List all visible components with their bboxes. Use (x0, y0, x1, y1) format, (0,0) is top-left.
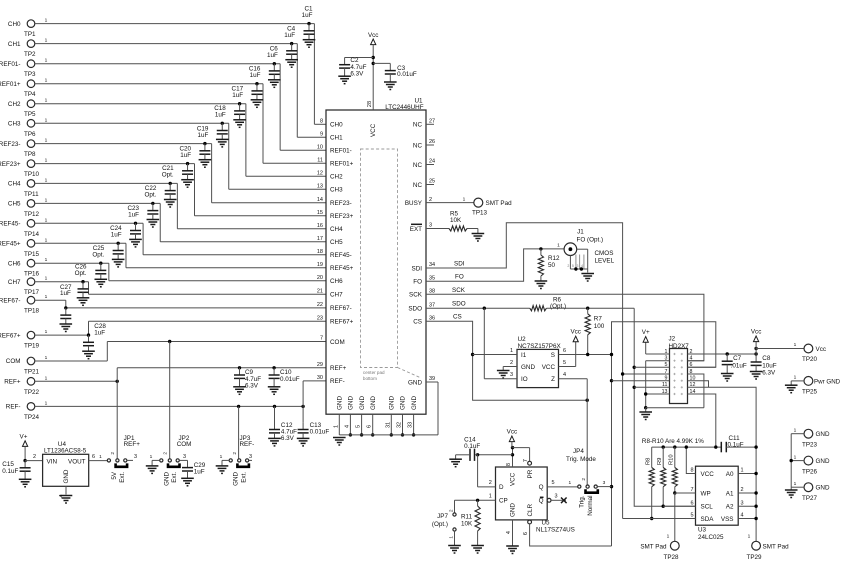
svg-text:3: 3 (741, 500, 744, 506)
svg-text:1uF: 1uF (284, 32, 295, 39)
svg-text:SDA: SDA (701, 516, 715, 523)
svg-text:J1: J1 (577, 229, 584, 236)
svg-text:REF01+: REF01+ (330, 161, 354, 168)
svg-text:Trig. Mode: Trig. Mode (566, 456, 596, 463)
svg-text:1: 1 (667, 534, 670, 540)
svg-text:1: 1 (741, 468, 744, 474)
svg-text:JP7: JP7 (437, 513, 448, 520)
svg-text:TP16: TP16 (24, 271, 40, 278)
svg-text:6: 6 (523, 532, 529, 535)
svg-text:TP19: TP19 (24, 343, 40, 350)
svg-text:REF45-: REF45- (0, 221, 21, 228)
svg-text:2: 2 (33, 454, 36, 460)
svg-text:GND: GND (233, 471, 240, 485)
svg-text:15: 15 (317, 210, 323, 216)
svg-text:GND: GND (816, 458, 830, 465)
svg-text:7: 7 (523, 459, 529, 462)
svg-text:TP27: TP27 (802, 495, 818, 502)
svg-text:.01uF: .01uF (731, 362, 747, 369)
svg-text:16: 16 (317, 223, 323, 229)
svg-text:R11: R11 (461, 513, 473, 520)
svg-text:1: 1 (794, 342, 797, 348)
svg-text:1: 1 (794, 454, 797, 460)
svg-text:I1: I1 (521, 352, 527, 359)
svg-text:3: 3 (603, 480, 606, 486)
svg-text:Vcc: Vcc (816, 346, 827, 353)
svg-text:CP: CP (499, 498, 508, 505)
svg-text:Trig.: Trig. (579, 495, 586, 508)
svg-text:3: 3 (555, 494, 558, 500)
svg-text:CH5: CH5 (8, 201, 21, 208)
svg-text:NC: NC (413, 122, 423, 129)
svg-text:10uF: 10uF (762, 362, 777, 369)
svg-text:1uF: 1uF (60, 290, 71, 297)
svg-text:VCC: VCC (701, 471, 715, 478)
svg-text:Q: Q (539, 498, 544, 505)
svg-text:REF01-: REF01- (0, 61, 21, 68)
svg-text:4: 4 (506, 531, 512, 534)
svg-text:1: 1 (150, 454, 153, 460)
svg-text:3: 3 (183, 454, 186, 460)
svg-text:REF-: REF- (240, 441, 255, 448)
svg-text:TP3: TP3 (24, 71, 36, 78)
svg-text:4: 4 (59, 495, 65, 498)
svg-text:TP15: TP15 (24, 251, 40, 258)
svg-text:0.1uF: 0.1uF (2, 468, 18, 475)
svg-text:R12: R12 (548, 255, 560, 262)
svg-text:1uF: 1uF (198, 132, 209, 139)
svg-text:Q: Q (539, 484, 544, 491)
svg-text:2: 2 (741, 487, 744, 493)
svg-text:Z: Z (551, 376, 555, 383)
svg-text:CH3: CH3 (8, 121, 21, 128)
svg-text:1uF: 1uF (194, 469, 205, 476)
svg-text:GND: GND (370, 396, 377, 410)
svg-text:SDO: SDO (408, 306, 422, 313)
svg-text:100: 100 (594, 323, 605, 330)
svg-text:1: 1 (794, 481, 797, 487)
svg-text:13: 13 (317, 184, 323, 190)
svg-text:REF23+: REF23+ (0, 161, 21, 168)
svg-text:7: 7 (320, 336, 323, 342)
svg-text:COM: COM (177, 441, 192, 448)
svg-text:11: 11 (317, 158, 323, 164)
svg-text:SMT Pad: SMT Pad (640, 544, 667, 551)
svg-text:6: 6 (690, 500, 693, 506)
svg-text:D: D (499, 484, 504, 491)
svg-text:1uF: 1uF (94, 330, 105, 337)
svg-text:1: 1 (45, 400, 48, 406)
svg-text:14: 14 (317, 197, 323, 203)
svg-text:GND: GND (337, 396, 344, 410)
svg-text:VSS: VSS (721, 516, 734, 523)
svg-text:1: 1 (45, 78, 48, 84)
svg-text:GND: GND (359, 396, 366, 410)
svg-text:GND: GND (400, 396, 407, 410)
svg-text:3: 3 (249, 454, 252, 460)
svg-text:NC7SZ157P6X: NC7SZ157P6X (518, 343, 562, 350)
svg-text:10K: 10K (461, 521, 473, 528)
svg-text:TP23: TP23 (802, 441, 818, 448)
svg-text:26: 26 (429, 139, 435, 145)
svg-text:6.3V: 6.3V (350, 71, 364, 78)
svg-text:5: 5 (572, 264, 574, 268)
svg-text:22: 22 (317, 302, 323, 308)
svg-text:CLR: CLR (527, 503, 534, 516)
svg-text:TP18: TP18 (24, 308, 40, 315)
svg-text:LTC2446UHF: LTC2446UHF (385, 104, 424, 111)
svg-text:2: 2 (429, 197, 432, 203)
svg-text:VCC: VCC (542, 364, 556, 371)
svg-text:1: 1 (45, 98, 48, 104)
svg-text:5V: 5V (111, 471, 118, 480)
svg-text:BUSY: BUSY (405, 200, 423, 207)
svg-text:4: 4 (344, 425, 350, 428)
svg-text:REF-: REF- (330, 378, 345, 385)
svg-text:V+: V+ (642, 329, 650, 336)
svg-text:1uF: 1uF (250, 72, 261, 79)
svg-text:CH0: CH0 (330, 122, 343, 129)
svg-text:FO (Opt.): FO (Opt.) (577, 236, 604, 243)
svg-text:R7: R7 (594, 316, 603, 323)
svg-text:C8: C8 (762, 355, 771, 362)
svg-text:SCL: SCL (701, 504, 714, 511)
svg-text:3: 3 (510, 372, 513, 378)
svg-text:COM: COM (6, 358, 21, 365)
svg-text:0.01uF: 0.01uF (397, 71, 417, 78)
svg-text:29: 29 (317, 362, 323, 368)
svg-text:34: 34 (429, 262, 435, 268)
svg-text:REF67+: REF67+ (330, 319, 354, 326)
svg-text:Pwr GND: Pwr GND (814, 378, 841, 385)
svg-text:7: 7 (690, 487, 693, 493)
svg-text:10K: 10K (450, 217, 462, 224)
svg-text:1: 1 (45, 158, 48, 164)
svg-text:2: 2 (489, 480, 492, 486)
svg-text:1uF: 1uF (111, 232, 122, 239)
svg-text:CS: CS (453, 314, 462, 321)
svg-text:TP21: TP21 (24, 369, 40, 376)
svg-text:CH1: CH1 (330, 135, 343, 142)
svg-text:GND: GND (348, 396, 355, 410)
svg-text:38: 38 (429, 289, 435, 295)
svg-text:1: 1 (45, 217, 48, 223)
svg-text:8: 8 (506, 463, 512, 466)
svg-text:TP1: TP1 (24, 31, 36, 38)
svg-text:1: 1 (794, 427, 797, 433)
svg-text:27: 27 (429, 119, 435, 125)
svg-text:32: 32 (397, 422, 403, 428)
svg-text:CH4: CH4 (8, 181, 21, 188)
svg-text:1: 1 (45, 294, 48, 300)
svg-text:10: 10 (317, 145, 323, 151)
svg-text:Opt.: Opt. (144, 192, 156, 199)
svg-text:SDI: SDI (412, 265, 423, 272)
svg-text:Opt.: Opt. (75, 270, 87, 277)
svg-text:GND: GND (521, 364, 535, 371)
svg-text:6: 6 (92, 454, 95, 460)
svg-text:1: 1 (45, 197, 48, 203)
svg-text:23: 23 (317, 315, 323, 321)
svg-text:18: 18 (317, 249, 323, 255)
svg-text:REF67-: REF67- (330, 305, 352, 312)
svg-text:0.1uF: 0.1uF (728, 442, 744, 449)
svg-text:U3: U3 (698, 527, 707, 534)
svg-text:LT1236ACS8-5: LT1236ACS8-5 (44, 448, 87, 455)
svg-text:SCK: SCK (452, 287, 466, 294)
svg-text:2: 2 (163, 452, 169, 455)
svg-text:2: 2 (232, 452, 238, 455)
svg-text:Opt.: Opt. (92, 251, 104, 258)
svg-text:21: 21 (317, 289, 323, 295)
svg-text:1uF: 1uF (302, 12, 313, 19)
svg-text:5: 5 (552, 480, 555, 486)
svg-text:center pad: center pad (363, 370, 385, 375)
svg-text:REF+: REF+ (4, 379, 21, 386)
svg-text:IO: IO (521, 376, 528, 383)
svg-text:2: 2 (110, 452, 116, 455)
svg-text:30: 30 (317, 375, 323, 381)
svg-text:R8: R8 (646, 458, 652, 465)
svg-text:1: 1 (463, 196, 466, 202)
svg-text:1: 1 (45, 329, 48, 335)
svg-text:Ext.: Ext. (171, 472, 178, 483)
svg-text:SDI: SDI (454, 261, 465, 268)
svg-text:A1: A1 (726, 490, 734, 497)
svg-text:REF23-: REF23- (330, 200, 352, 207)
svg-text:39: 39 (429, 376, 435, 382)
svg-text:TP20: TP20 (802, 356, 818, 363)
svg-text:HD2X7: HD2X7 (669, 343, 690, 350)
svg-text:6: 6 (367, 425, 373, 428)
svg-text:TP12: TP12 (24, 211, 40, 218)
svg-text:3: 3 (429, 223, 432, 229)
svg-text:VOUT: VOUT (68, 458, 86, 465)
svg-text:1: 1 (45, 375, 48, 381)
svg-text:31: 31 (385, 422, 391, 428)
svg-text:33: 33 (408, 422, 414, 428)
svg-text:REF45-: REF45- (330, 252, 352, 259)
svg-text:CMOS: CMOS (595, 250, 614, 257)
svg-text:V+: V+ (20, 433, 28, 440)
svg-text:TP25: TP25 (802, 388, 818, 395)
svg-text:A0: A0 (726, 471, 734, 478)
svg-text:REF23+: REF23+ (330, 213, 354, 220)
svg-text:Ext.: Ext. (119, 472, 126, 483)
svg-text:TP11: TP11 (24, 191, 39, 198)
svg-text:CH1: CH1 (8, 41, 21, 48)
svg-text:37: 37 (429, 302, 435, 308)
svg-text:(Opt.): (Opt.) (432, 521, 448, 528)
svg-text:Vcc: Vcc (570, 329, 581, 336)
svg-text:GND: GND (816, 485, 830, 492)
svg-text:0.01uF: 0.01uF (310, 429, 330, 436)
svg-text:3: 3 (134, 454, 137, 460)
svg-text:1: 1 (748, 534, 751, 540)
svg-text:NL17SZ74US: NL17SZ74US (536, 526, 575, 533)
svg-text:REF+: REF+ (330, 365, 347, 372)
svg-text:24: 24 (429, 159, 435, 165)
svg-text:CH7: CH7 (330, 292, 343, 299)
svg-text:Ext.: Ext. (241, 472, 248, 483)
svg-text:1: 1 (448, 536, 454, 539)
svg-text:1: 1 (45, 177, 48, 183)
svg-text:REF23-: REF23- (0, 141, 21, 148)
svg-text:1: 1 (45, 58, 48, 64)
svg-text:REF67-: REF67- (0, 297, 21, 304)
svg-text:TP10: TP10 (24, 171, 40, 178)
svg-text:2: 2 (567, 264, 569, 268)
svg-text:FO: FO (455, 274, 464, 281)
svg-text:1: 1 (45, 276, 48, 282)
svg-text:C7: C7 (733, 355, 742, 362)
svg-text:4: 4 (563, 372, 566, 378)
svg-text:SCK: SCK (409, 292, 423, 299)
svg-text:COM: COM (330, 339, 345, 346)
svg-text:1: 1 (510, 348, 513, 354)
svg-text:bottom: bottom (363, 376, 377, 381)
svg-text:R8-R10 Are 4.99K 1%: R8-R10 Are 4.99K 1% (642, 438, 704, 445)
svg-text:5: 5 (356, 425, 362, 428)
svg-text:9: 9 (320, 132, 323, 138)
svg-text:TP29: TP29 (747, 554, 763, 561)
svg-text:A2: A2 (726, 504, 734, 511)
svg-text:NC: NC (413, 162, 423, 169)
svg-text:Normal: Normal (587, 496, 594, 516)
svg-text:6.3V: 6.3V (762, 369, 776, 376)
svg-text:VCC: VCC (370, 123, 377, 137)
svg-text:CH0: CH0 (8, 21, 21, 28)
svg-text:20: 20 (317, 275, 323, 281)
svg-text:1uF: 1uF (215, 112, 226, 119)
svg-text:CH2: CH2 (330, 174, 343, 181)
svg-text:TP14: TP14 (24, 231, 40, 238)
svg-text:CH5: CH5 (330, 239, 343, 246)
svg-text:CH6: CH6 (8, 260, 21, 267)
svg-text:2: 2 (448, 509, 454, 512)
svg-text:1: 1 (489, 494, 492, 500)
svg-text:1: 1 (568, 480, 571, 486)
svg-text:3: 3 (577, 264, 579, 268)
svg-text:GND: GND (63, 469, 70, 483)
svg-text:1: 1 (557, 242, 560, 248)
svg-text:NC: NC (413, 182, 423, 189)
svg-text:REF45+: REF45+ (0, 241, 21, 248)
svg-text:TP22: TP22 (24, 389, 40, 396)
svg-text:JP4: JP4 (573, 448, 584, 455)
svg-text:1: 1 (45, 117, 48, 123)
svg-text:1: 1 (45, 257, 48, 263)
svg-text:VCC: VCC (510, 472, 517, 486)
svg-text:TP2: TP2 (24, 51, 36, 58)
svg-text:25: 25 (429, 179, 435, 185)
svg-text:1: 1 (99, 454, 102, 460)
svg-text:CH6: CH6 (330, 278, 343, 285)
svg-text:EXT: EXT (410, 226, 422, 233)
svg-text:REF01+: REF01+ (0, 81, 21, 88)
svg-text:17: 17 (317, 236, 323, 242)
svg-text:1: 1 (45, 138, 48, 144)
svg-text:6: 6 (563, 348, 566, 354)
svg-text:1uF: 1uF (128, 212, 139, 219)
svg-text:CH4: CH4 (330, 226, 343, 233)
svg-text:REF+: REF+ (124, 441, 141, 448)
svg-text:8: 8 (690, 468, 693, 474)
svg-text:36: 36 (429, 315, 435, 321)
svg-text:4: 4 (581, 264, 583, 268)
svg-text:GND: GND (163, 471, 170, 485)
svg-text:28: 28 (367, 101, 373, 107)
svg-text:1: 1 (45, 355, 48, 361)
svg-text:CH7: CH7 (8, 279, 21, 286)
svg-text:1: 1 (220, 454, 223, 460)
svg-text:1uF: 1uF (232, 92, 243, 99)
svg-text:SDO: SDO (452, 301, 466, 308)
svg-text:TP17: TP17 (24, 289, 40, 296)
svg-text:TP28: TP28 (664, 554, 680, 561)
svg-text:GND: GND (389, 396, 396, 410)
svg-text:1: 1 (794, 375, 797, 381)
svg-text:19: 19 (317, 262, 323, 268)
svg-text:CH3: CH3 (330, 187, 343, 194)
svg-text:1: 1 (45, 38, 48, 44)
svg-text:PR: PR (527, 469, 534, 478)
svg-text:TP26: TP26 (802, 468, 818, 475)
svg-text:R9: R9 (657, 458, 663, 465)
svg-text:REF67+: REF67+ (0, 332, 21, 339)
svg-text:REF-: REF- (6, 404, 21, 411)
svg-text:2: 2 (510, 360, 513, 366)
svg-text:TP24: TP24 (24, 414, 40, 421)
svg-text:1: 1 (45, 237, 48, 243)
svg-text:1: 1 (45, 18, 48, 24)
svg-text:GND: GND (411, 396, 418, 410)
svg-text:GND: GND (816, 431, 830, 438)
svg-text:VIN: VIN (47, 458, 58, 465)
svg-text:TP6: TP6 (24, 131, 36, 138)
svg-text:TP13: TP13 (472, 210, 488, 217)
svg-text:6.3V: 6.3V (245, 382, 259, 389)
svg-text:REF01-: REF01- (330, 148, 352, 155)
svg-text:GND: GND (510, 503, 517, 517)
svg-text:CH2: CH2 (8, 101, 21, 108)
svg-text:12: 12 (317, 171, 323, 177)
svg-text:TP8: TP8 (24, 151, 36, 158)
svg-text:0.01uF: 0.01uF (280, 376, 300, 383)
svg-text:J2: J2 (669, 336, 676, 343)
svg-text:(Opt.): (Opt.) (550, 303, 566, 310)
svg-text:S: S (551, 352, 555, 359)
svg-text:24LC025: 24LC025 (698, 534, 724, 541)
svg-text:TP4: TP4 (24, 91, 36, 98)
svg-text:SMT Pad: SMT Pad (763, 544, 790, 551)
svg-text:1: 1 (333, 425, 339, 428)
svg-text:2: 2 (581, 478, 587, 481)
svg-text:SMT Pad: SMT Pad (486, 200, 513, 207)
svg-text:5: 5 (563, 360, 566, 366)
svg-text:8: 8 (320, 119, 323, 125)
svg-text:FO: FO (413, 279, 422, 286)
svg-text:LEVEL: LEVEL (595, 258, 615, 265)
svg-text:Opt.: Opt. (162, 172, 174, 179)
svg-text:35: 35 (429, 275, 435, 281)
svg-text:Vcc: Vcc (507, 429, 518, 436)
svg-text:GND: GND (408, 379, 422, 386)
svg-text:REF45+: REF45+ (330, 265, 354, 272)
svg-text:WP: WP (701, 490, 711, 497)
svg-text:5: 5 (690, 513, 693, 519)
svg-text:4: 4 (741, 513, 744, 519)
